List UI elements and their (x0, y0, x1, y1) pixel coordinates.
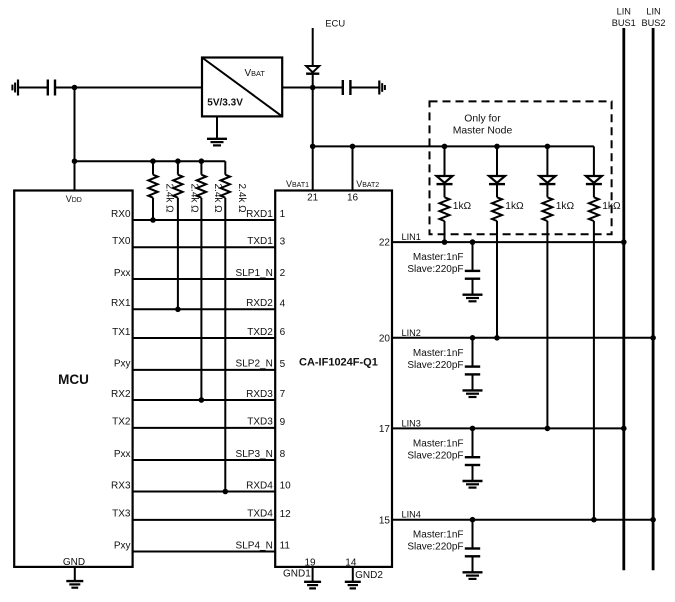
wire node A down to VDD rail (74, 88, 76, 162)
wire R7 down to LIN3 (546, 221, 548, 428)
capacitor C2 (VBAT decoupling) (342, 80, 344, 95)
node rail to R2 (175, 158, 181, 164)
svg-text:GND: GND (63, 557, 85, 568)
svg-text:VDD: VDD (66, 194, 82, 204)
svg-text:RX3: RX3 (111, 480, 131, 491)
U1 ground pin GND2 pin 14 (352, 567, 354, 582)
node A junction (VSUP to VDD branch) (72, 85, 78, 91)
ground for C4 (463, 389, 483, 391)
transceiver U1 CA-IF1024F-Q1 block (275, 191, 392, 567)
node VBAT2 branch junction (350, 144, 356, 150)
wire LIN4 pin 15 to bus (392, 519, 653, 521)
svg-text:Master:1nF: Master:1nF (413, 252, 464, 263)
wire MCU Pxy to SLP2_N pin 5 (133, 369, 276, 371)
wire MCU RX0 to RXD1 pin 1 (133, 219, 276, 221)
svg-text:RXD1: RXD1 (246, 209, 273, 220)
wire rail to diode D1 (444, 146, 446, 176)
wire VBAT2 branch down to pin 16 (352, 146, 354, 190)
wire D5 cathode to node B (312, 74, 314, 88)
wire rail to diode D2 (496, 146, 498, 176)
wire LIN3 pin 17 to bus (392, 427, 624, 429)
diode D5 (reverse battery protection from ECU) (306, 66, 319, 72)
resistor R5 1k master pull-up (440, 197, 450, 221)
svg-text:VBAT: VBAT (245, 68, 266, 79)
svg-text:RX1: RX1 (111, 298, 131, 309)
ground for C3 (463, 294, 483, 296)
svg-text:Slave:220pF: Slave:220pF (407, 360, 463, 371)
svg-text:4: 4 (280, 299, 286, 310)
wire node B down to VBAT rail and VBAT1 pin (312, 88, 314, 191)
svg-text:5: 5 (280, 359, 286, 370)
wire node B to C2 (313, 87, 343, 89)
wire MCU TX0 to TXD1 pin 3 (133, 246, 276, 248)
svg-text:VBAT2: VBAT2 (356, 179, 379, 189)
node LIN2 capacitor junction (470, 335, 476, 341)
svg-text:1kΩ: 1kΩ (453, 201, 472, 212)
LIN BUS2 line (652, 28, 655, 570)
svg-text:CA-IF1024F-Q1: CA-IF1024F-Q1 (299, 357, 378, 369)
wire D3 to R7 (546, 185, 548, 198)
wire MCU RX1 to RXD2 pin 4 (133, 308, 276, 310)
wire LIN1 pin 22 to bus (392, 241, 624, 243)
node rail to R1 (150, 158, 156, 164)
wire R8 down to LIN4 (593, 221, 595, 520)
dashed box: Only for Master Node (430, 101, 612, 234)
wire rail to diode D3 (546, 146, 548, 176)
svg-text:LIN: LIN (617, 7, 631, 17)
U1 ground pin GND1 pin 19 (312, 567, 314, 582)
node LIN1 capacitor junction (470, 239, 476, 245)
wire rail to diode D4 (593, 146, 595, 176)
svg-text:SLP3_N: SLP3_N (236, 449, 273, 460)
svg-text:20: 20 (379, 333, 391, 344)
node LIN1 to bus junction (621, 239, 627, 245)
svg-text:TXD4: TXD4 (247, 509, 273, 520)
svg-text:Master:1nF: Master:1nF (413, 348, 464, 359)
svg-text:ECU: ECU (325, 18, 345, 29)
svg-text:TX3: TX3 (112, 509, 131, 520)
svg-text:Pxy: Pxy (114, 359, 131, 370)
svg-text:1kΩ: 1kΩ (556, 201, 575, 212)
svg-text:1: 1 (280, 209, 286, 220)
svg-text:6: 6 (280, 327, 286, 338)
node R7 to LIN3 junction (545, 426, 551, 432)
wire R5 down to LIN1 (444, 221, 446, 242)
svg-text:Pxx: Pxx (114, 449, 131, 460)
ground (right of C2) (378, 81, 380, 95)
ground GND2 (345, 581, 361, 583)
wire D2 to R6 (496, 185, 498, 198)
svg-text:9: 9 (280, 417, 286, 428)
wire VDD rail down to MCU VDD pin (74, 161, 76, 190)
svg-text:TXD1: TXD1 (247, 236, 273, 247)
svg-text:TXD2: TXD2 (247, 327, 273, 338)
node R6 to LIN2 junction (494, 335, 500, 341)
svg-text:LIN3: LIN3 (402, 418, 421, 428)
svg-text:Pxx: Pxx (114, 268, 131, 279)
svg-text:LIN: LIN (646, 7, 660, 17)
node VBAT rail to D2 branch (494, 144, 500, 150)
VBAT rail wire to master-node branches (313, 145, 594, 147)
diode D4 (master pull-up diode) (586, 176, 602, 183)
node LIN2 to bus junction (650, 335, 656, 341)
resistor R8 1k master pull-up (589, 197, 599, 221)
svg-text:TX2: TX2 (112, 417, 131, 428)
capacitor C1 (input bulk cap) (47, 80, 49, 96)
node B junction (VBAT node) (310, 85, 316, 91)
svg-text:SLP2_N: SLP2_N (236, 359, 273, 370)
svg-text:RXD4: RXD4 (246, 480, 273, 491)
node VDD rail junction (72, 158, 78, 164)
capacitor C6 LIN4 (Master:1nF Slave:220pF) (472, 520, 474, 549)
node VBAT junction on rail (310, 144, 316, 150)
svg-text:17: 17 (379, 424, 391, 435)
wire MCU Pxx to SLP1_N pin 2 (133, 278, 276, 280)
svg-text:Master:1nF: Master:1nF (413, 530, 464, 541)
node VBAT rail to D3 branch (545, 144, 551, 150)
wire C1 to regulator input, through node A (55, 87, 202, 89)
svg-text:14: 14 (345, 557, 357, 568)
wire LIN2 pin 20 to bus (392, 337, 653, 339)
ground for C6 (463, 571, 483, 573)
svg-text:RX0: RX0 (111, 209, 131, 220)
wire D4 to R8 (593, 185, 595, 198)
wire MCU TX1 to TXD2 pin 6 (133, 337, 276, 339)
diode D2 (master pull-up diode) (489, 176, 505, 183)
wire MCU RX3 to RXD4 pin 10 (133, 491, 276, 493)
svg-text:BUS1: BUS1 (612, 18, 636, 28)
node VBAT rail to D1 branch (442, 144, 448, 150)
diode D3 (master pull-up diode) (539, 176, 555, 183)
svg-text:19: 19 (304, 557, 316, 568)
resistor R3 2.4k pull-up (200, 161, 202, 175)
wire MCU Pxy to SLP4_N pin 11 (133, 551, 276, 553)
svg-text:Master:1nF: Master:1nF (413, 438, 464, 449)
svg-text:Only for: Only for (464, 113, 501, 124)
svg-text:LIN1: LIN1 (402, 232, 421, 242)
svg-text:Slave:220pF: Slave:220pF (407, 264, 463, 275)
resistor R7 1k master pull-up (542, 197, 552, 221)
svg-text:Pxy: Pxy (114, 540, 131, 551)
svg-text:8: 8 (280, 449, 286, 460)
diode D1 (master pull-up diode) (437, 176, 453, 183)
svg-text:5V/3.3V: 5V/3.3V (207, 98, 243, 109)
svg-text:12: 12 (280, 509, 292, 520)
svg-text:10: 10 (280, 481, 292, 492)
wire MCU TX3 to TXD4 pin 12 (133, 519, 276, 521)
svg-text:TX0: TX0 (112, 236, 131, 247)
svg-text:LIN2: LIN2 (402, 328, 421, 338)
svg-text:LIN4: LIN4 (402, 510, 421, 520)
svg-text:SLP1_N: SLP1_N (236, 268, 273, 279)
MCU U3 block (14, 191, 132, 567)
ground GND1 (304, 581, 321, 583)
svg-text:RXD3: RXD3 (246, 389, 273, 400)
node R8 to LIN4 junction (591, 517, 597, 523)
capacitor C3 LIN1 (Master:1nF Slave:220pF) (472, 242, 474, 271)
svg-text:Slave:220pF: Slave:220pF (407, 542, 463, 553)
capacitor C5 LIN3 (Master:1nF Slave:220pF) (472, 428, 474, 457)
resistor R4 2.4k pull-up (224, 161, 226, 175)
wire from ECU down to diode D5 (312, 28, 314, 66)
svg-text:1kΩ: 1kΩ (602, 201, 621, 212)
svg-text:1kΩ: 1kΩ (505, 201, 524, 212)
ground (top-left supply return) (17, 80, 19, 96)
ground for C5 (463, 480, 483, 482)
node rail to R3 (199, 158, 205, 164)
node R5 to LIN1 junction (442, 239, 448, 245)
node R3 to RXD3 wire junction (199, 397, 205, 403)
node LIN4 to bus junction (650, 517, 656, 523)
svg-text:7: 7 (280, 389, 286, 400)
svg-text:21: 21 (307, 193, 319, 204)
node LIN4 capacitor junction (470, 517, 476, 523)
wire regulator output to node B (282, 87, 313, 89)
node LIN3 capacitor junction (470, 426, 476, 432)
svg-text:Master Node: Master Node (453, 126, 513, 137)
resistor R6 1k master pull-up (492, 197, 502, 221)
svg-text:15: 15 (379, 515, 391, 526)
node R4 to RXD4 wire junction (223, 489, 229, 495)
svg-text:3: 3 (280, 237, 286, 248)
MCU ground pin (74, 567, 76, 581)
svg-text:22: 22 (379, 238, 391, 249)
svg-text:SLP4_N: SLP4_N (236, 540, 273, 551)
node R2 to RXD2 wire junction (175, 307, 181, 313)
svg-text:GND2: GND2 (355, 570, 383, 581)
node R1 to RXD1 wire junction (150, 217, 156, 223)
capacitor C4 LIN2 (Master:1nF Slave:220pF) (472, 338, 474, 367)
svg-text:2: 2 (280, 268, 286, 279)
svg-text:11: 11 (280, 541, 291, 552)
svg-text:TX1: TX1 (112, 327, 131, 338)
regulator ground (216, 116, 218, 138)
svg-text:16: 16 (347, 193, 359, 204)
wire C2 to ground (350, 87, 379, 89)
VDD pull-up rail wire (75, 160, 226, 162)
svg-text:RX2: RX2 (111, 389, 131, 400)
wire MCU Pxx to SLP3_N pin 8 (133, 459, 276, 461)
resistor R1 2.4k pull-up (152, 161, 154, 175)
svg-text:VBAT1: VBAT1 (286, 179, 309, 189)
svg-text:TXD3: TXD3 (247, 417, 273, 428)
svg-text:MCU: MCU (58, 372, 89, 387)
wire R6 down to LIN2 (496, 221, 498, 338)
wire MCU RX2 to RXD3 pin 7 (133, 399, 276, 401)
svg-text:BUS2: BUS2 (641, 18, 665, 28)
regulator U2 5V/3.3V (202, 58, 282, 117)
node LIN3 to bus junction (621, 426, 627, 432)
wire D1 to R5 (444, 185, 446, 198)
wire ground to C1 (18, 87, 48, 89)
LIN BUS1 line (622, 28, 625, 570)
svg-text:GND1: GND1 (283, 569, 311, 580)
svg-text:RXD2: RXD2 (246, 298, 273, 309)
resistor R2 2.4k pull-up (177, 161, 179, 175)
svg-text:Slave:220pF: Slave:220pF (407, 450, 463, 461)
wire MCU TX2 to TXD3 pin 9 (133, 427, 276, 429)
